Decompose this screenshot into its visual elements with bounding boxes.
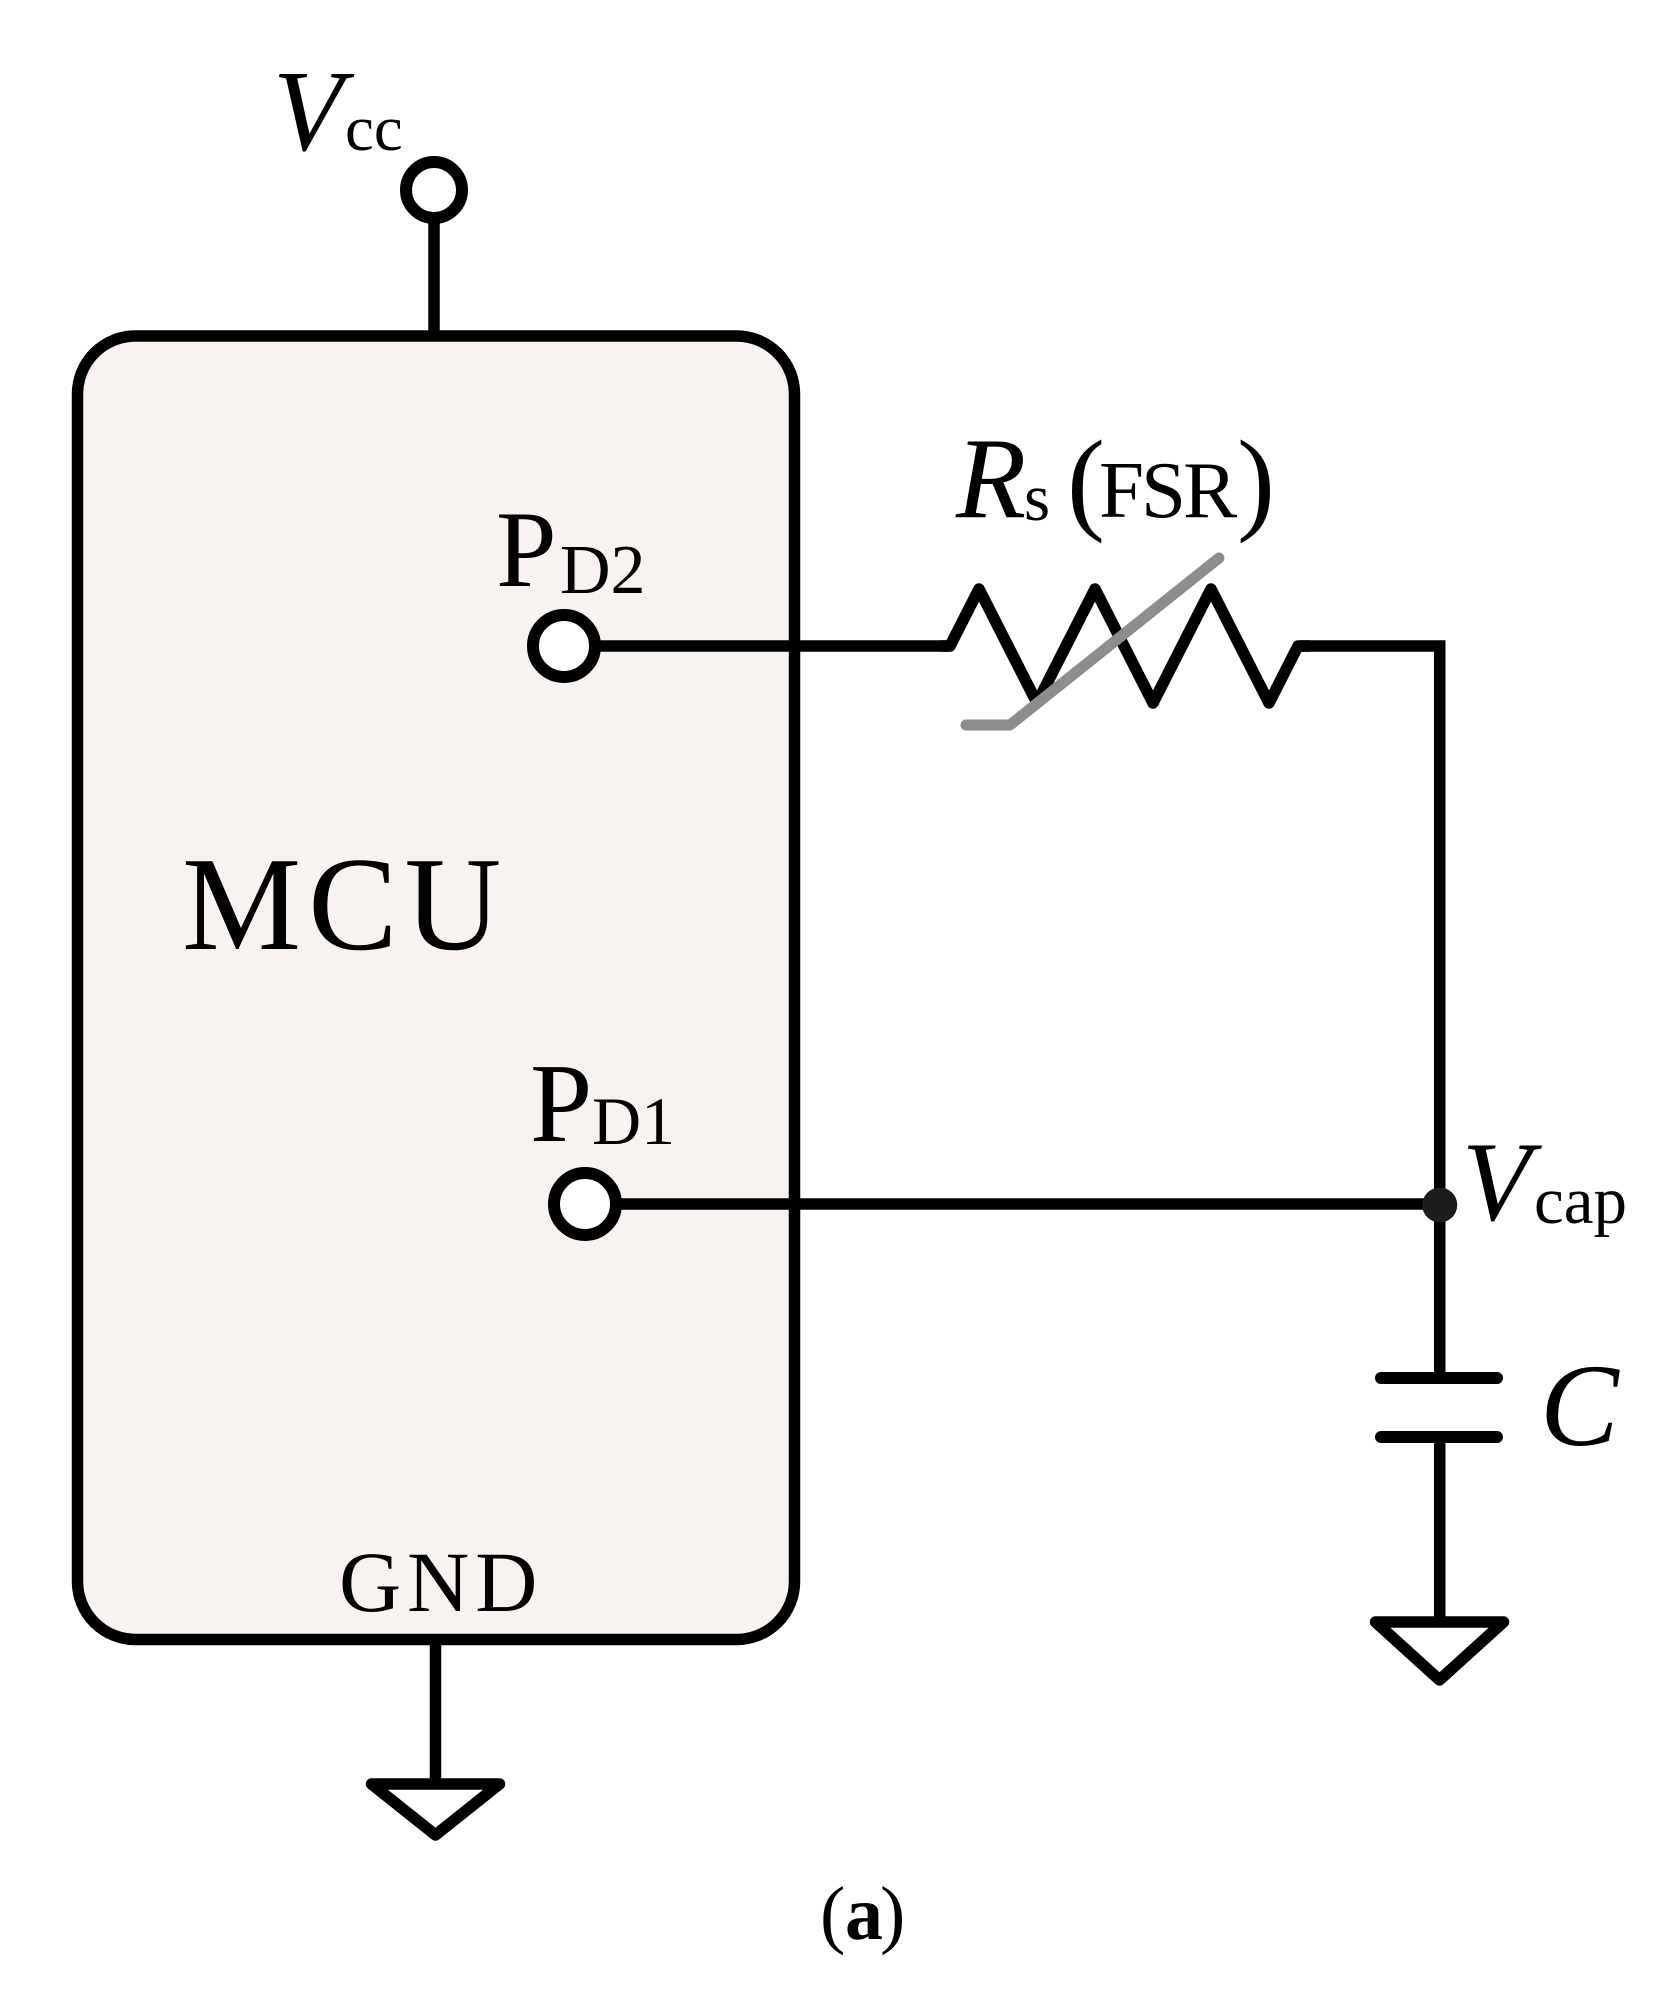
resistor Rs zigzag xyxy=(940,589,1310,703)
svg-text:FSR: FSR xyxy=(1099,445,1237,535)
ground (right) xyxy=(1376,1622,1504,1680)
svg-text:): ) xyxy=(1237,417,1275,544)
svg-text:s: s xyxy=(1024,461,1050,535)
svg-text:cap: cap xyxy=(1534,1164,1627,1238)
svg-text:P: P xyxy=(530,1042,592,1166)
label C xyxy=(1540,1340,1620,1471)
wire PD2 to resistor xyxy=(597,640,950,652)
label MCU xyxy=(182,830,508,978)
node Vcap junction dot xyxy=(1422,1188,1457,1223)
svg-text:V: V xyxy=(1462,1120,1542,1245)
svg-text:GND: GND xyxy=(339,1534,543,1630)
pin PD2 xyxy=(533,615,595,677)
svg-text:D2: D2 xyxy=(560,532,646,609)
svg-text:MCU: MCU xyxy=(182,830,508,978)
capacitor C xyxy=(1381,1378,1497,1437)
svg-text:D1: D1 xyxy=(592,1083,675,1159)
svg-text:): ) xyxy=(880,1872,905,1956)
ground (left) xyxy=(372,1784,500,1835)
svg-text:cc: cc xyxy=(345,93,403,165)
wire MCU GND to ground xyxy=(430,1640,442,1784)
label PD1 xyxy=(530,1042,675,1166)
wire PD1 to Vcap node xyxy=(618,1198,1439,1210)
svg-text:V: V xyxy=(273,48,355,175)
pin PD1 xyxy=(554,1173,616,1235)
wire capacitor to ground xyxy=(1434,1437,1446,1622)
svg-text:C: C xyxy=(1540,1340,1620,1471)
label Vcc xyxy=(273,48,403,175)
svg-text:a: a xyxy=(845,1872,883,1956)
svg-text:(: ( xyxy=(820,1872,845,1956)
svg-text:P: P xyxy=(496,489,557,610)
label Vcap xyxy=(1462,1120,1627,1245)
wire resistor to Vcap node (right, down) xyxy=(1300,646,1440,1378)
FSR arrow gray stroke xyxy=(966,558,1219,725)
svg-text:R: R xyxy=(955,415,1026,542)
wire Vcc to MCU xyxy=(428,215,440,340)
power terminal Vcc xyxy=(406,162,462,218)
label PD2 xyxy=(496,489,646,610)
label GND xyxy=(339,1534,543,1630)
label Rs (FSR) xyxy=(955,415,1275,544)
label (a) xyxy=(820,1872,905,1956)
MCU U1 xyxy=(78,336,795,1640)
